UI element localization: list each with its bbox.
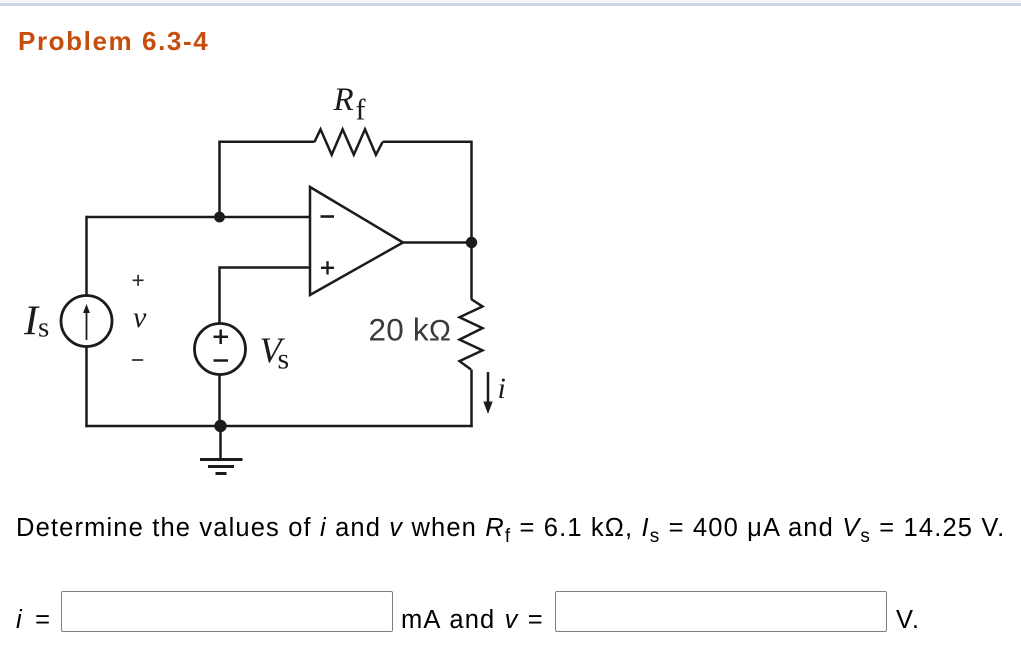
wire op-amp output <box>403 241 472 244</box>
node A (inverting input junction) <box>214 212 225 223</box>
label Vs <box>260 330 290 376</box>
label plus of v <box>133 275 144 286</box>
ground <box>200 460 243 474</box>
op-amp U1 <box>310 187 403 295</box>
svg-text:R: R <box>333 82 354 118</box>
wire left vertical upper <box>85 216 88 296</box>
svg-text:v: v <box>133 301 147 334</box>
svg-text:f: f <box>356 94 366 127</box>
resistor Rf <box>315 129 383 155</box>
svg-text:20 kΩ: 20 kΩ <box>369 312 452 348</box>
wire Vs bottom vertical <box>218 375 221 427</box>
resistor 20k zigzag <box>460 299 483 370</box>
svg-text:i: i <box>498 372 506 405</box>
svg-text:s: s <box>38 312 49 344</box>
svg-text:s: s <box>278 343 290 376</box>
wire feedback top left <box>218 141 314 144</box>
wire left vertical lower <box>85 347 88 428</box>
node B (op-amp output junction) <box>466 237 477 248</box>
wire ground stem <box>219 426 222 459</box>
wire Vs top vertical <box>218 266 221 323</box>
wire feedback left vertical <box>218 142 221 217</box>
current source Is <box>61 296 112 347</box>
label Rf <box>333 82 366 127</box>
wire right vertical lower <box>470 370 473 428</box>
wire right vertical middle <box>470 243 473 300</box>
wire feedback top right <box>383 141 472 144</box>
wire bottom <box>85 425 472 428</box>
arrow i <box>483 372 492 414</box>
wire noninverting input <box>220 266 311 269</box>
voltage source Vs <box>195 324 246 375</box>
wire inverting input <box>87 216 311 219</box>
wire right vertical upper <box>470 141 473 243</box>
label minus of v <box>132 359 143 361</box>
label Is <box>23 299 49 345</box>
node C (ground junction) <box>214 420 226 432</box>
